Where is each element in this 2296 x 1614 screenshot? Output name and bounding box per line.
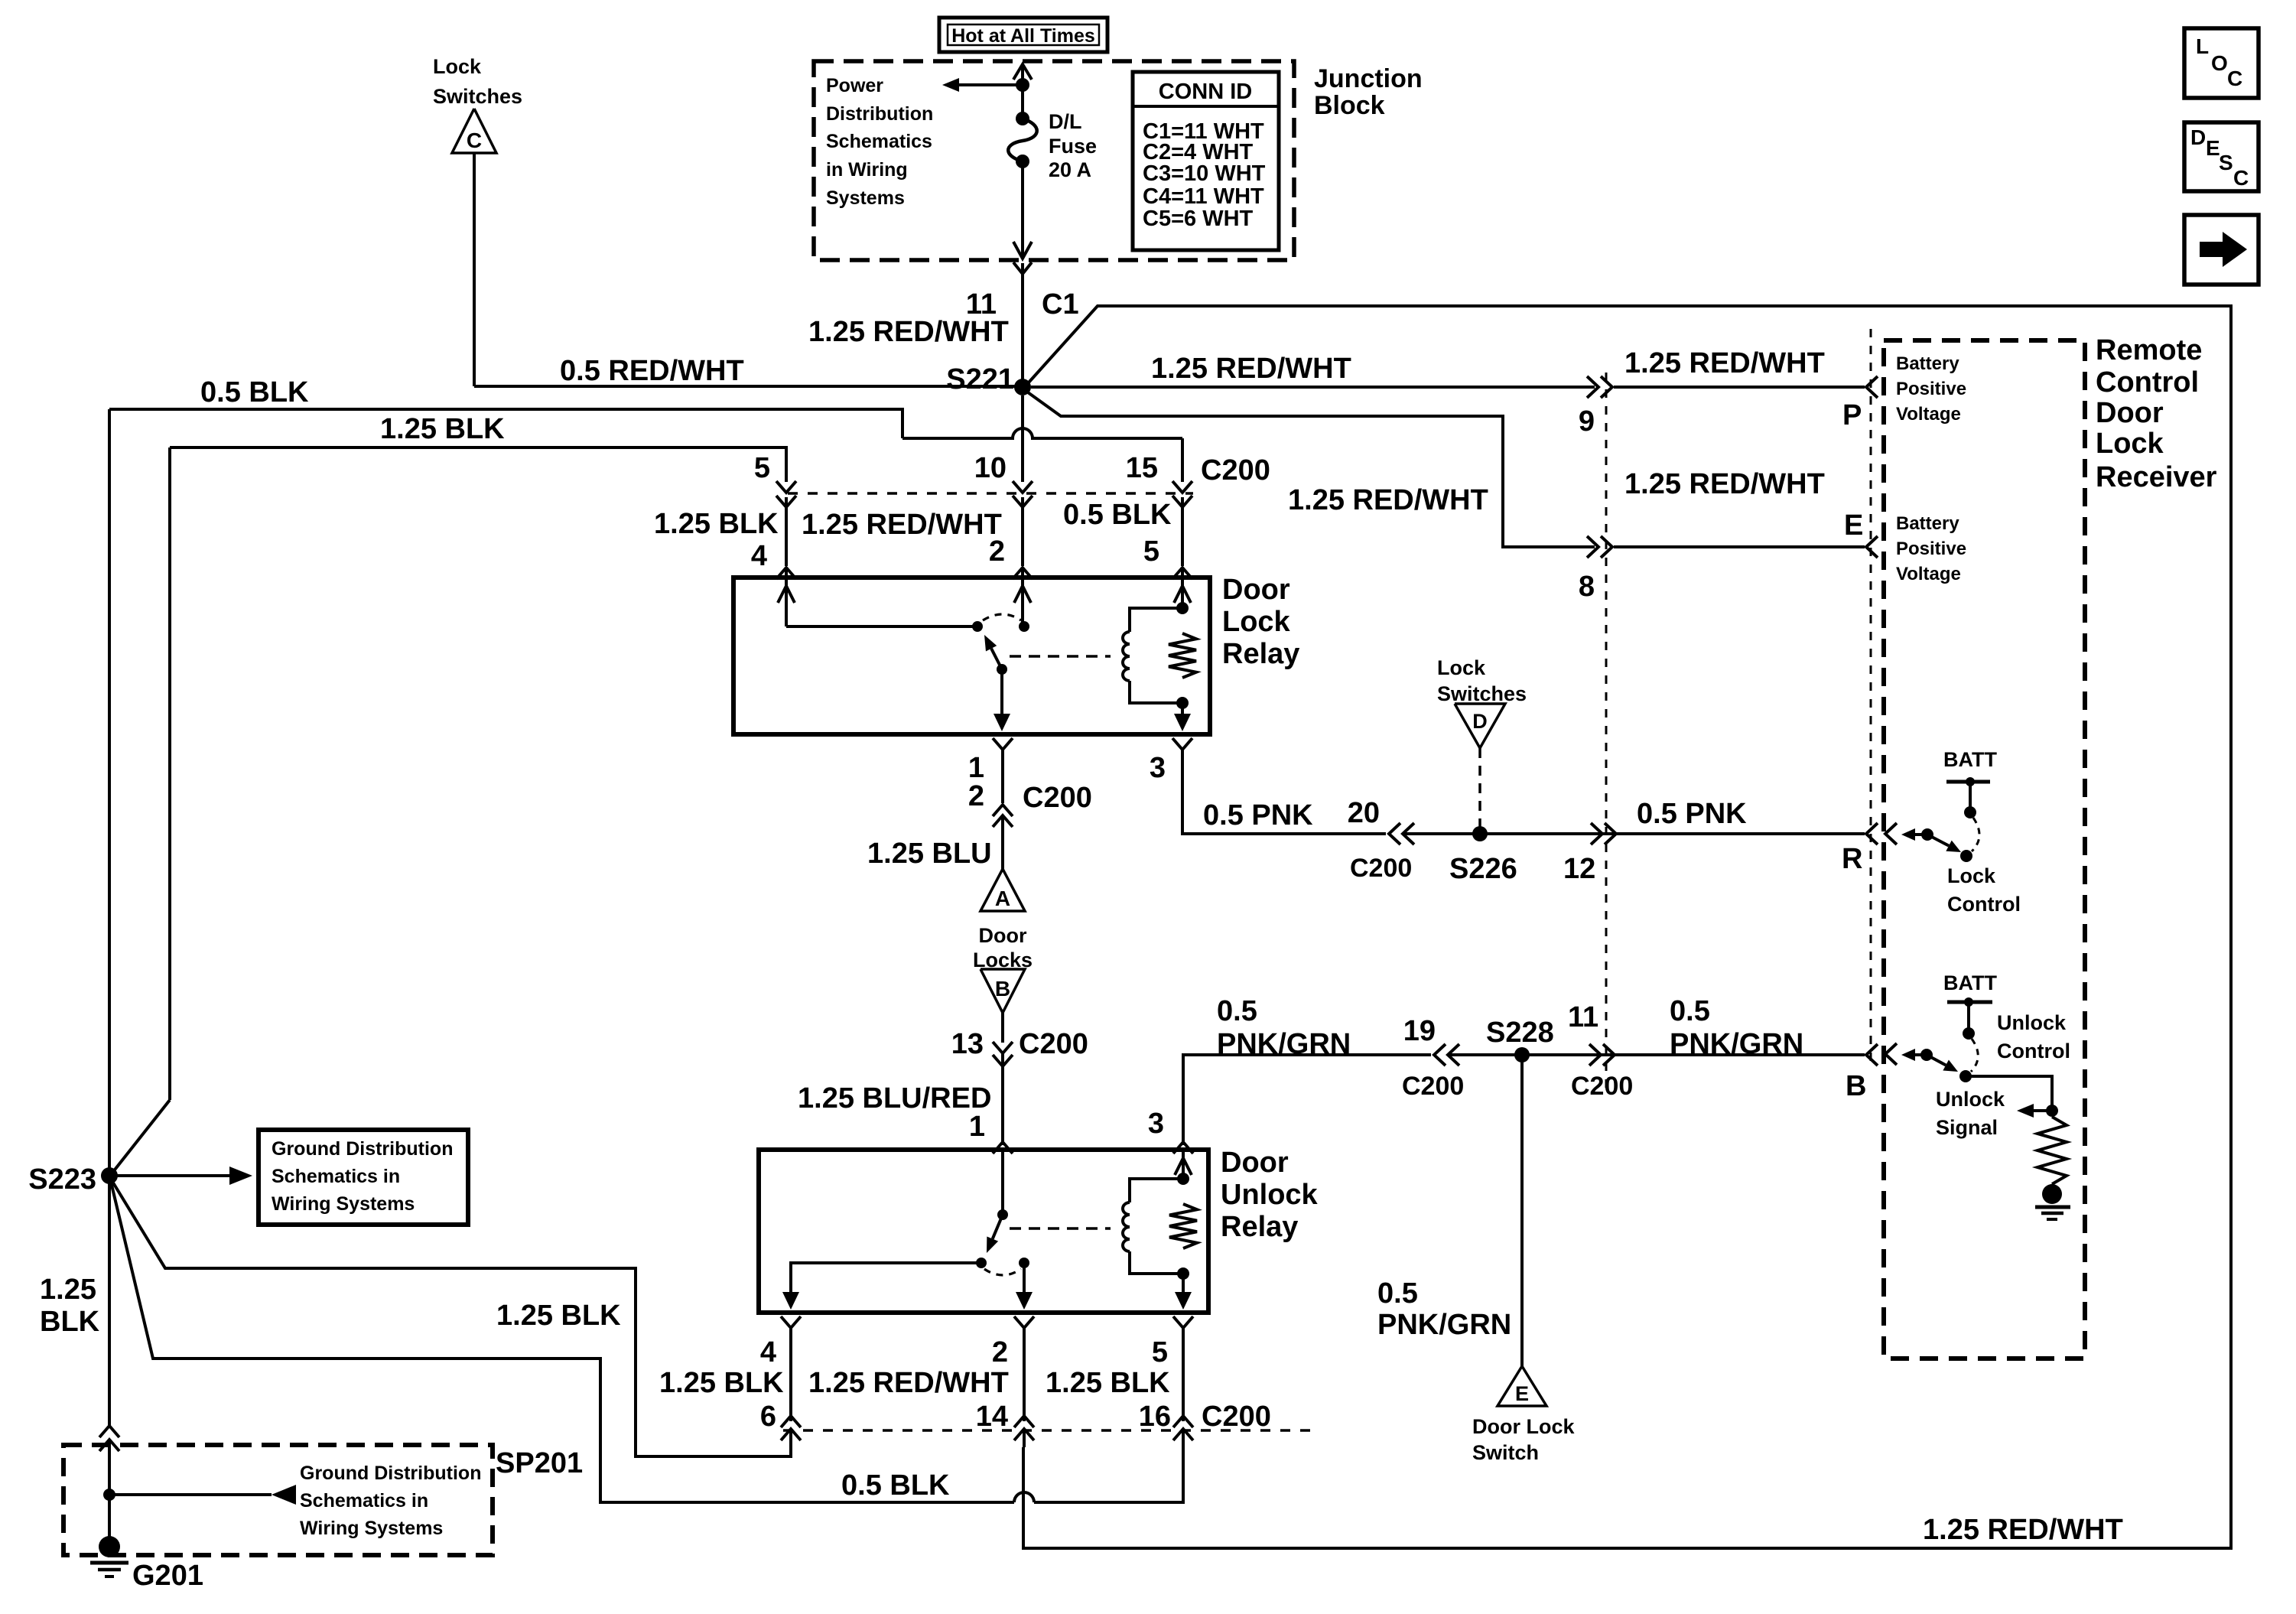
svg-text:1.25 RED/WHT: 1.25 RED/WHT [802, 509, 1002, 541]
svg-text:R: R [1842, 843, 1862, 875]
svg-text:Remote: Remote [2096, 334, 2202, 366]
svg-text:Fuse: Fuse [1049, 135, 1097, 158]
svg-text:B: B [995, 977, 1010, 1001]
svg-text:O: O [2211, 51, 2228, 75]
svg-text:Control: Control [2096, 366, 2199, 399]
svg-text:1.25 RED/WHT: 1.25 RED/WHT [1624, 347, 1825, 379]
svg-text:S228: S228 [1486, 1017, 1554, 1049]
svg-text:0.5 BLK: 0.5 BLK [1063, 499, 1172, 531]
svg-text:Control: Control [1947, 893, 2021, 916]
svg-text:0.5 PNK: 0.5 PNK [1203, 799, 1313, 831]
svg-text:2: 2 [989, 535, 1005, 568]
svg-text:A: A [995, 887, 1010, 910]
svg-text:1.25 RED/WHT: 1.25 RED/WHT [1288, 484, 1488, 516]
svg-text:Door: Door [1221, 1147, 1289, 1179]
svg-text:C200: C200 [1201, 454, 1270, 486]
svg-text:1.25 BLK: 1.25 BLK [496, 1300, 621, 1332]
svg-text:0.5 BLK: 0.5 BLK [841, 1469, 950, 1502]
svg-text:Switches: Switches [433, 85, 522, 108]
svg-text:Positive: Positive [1896, 539, 1966, 559]
svg-text:Schematics: Schematics [826, 131, 932, 152]
svg-text:1.25 BLU/RED: 1.25 BLU/RED [798, 1082, 991, 1115]
svg-text:Lock: Lock [1947, 864, 1996, 887]
svg-text:2: 2 [992, 1336, 1008, 1368]
svg-text:Voltage: Voltage [1896, 564, 1961, 584]
svg-text:1.25 BLK: 1.25 BLK [380, 413, 505, 445]
svg-text:19: 19 [1403, 1015, 1436, 1047]
svg-text:0.5 BLK: 0.5 BLK [200, 376, 309, 408]
svg-text:Positive: Positive [1896, 379, 1966, 399]
svg-text:1.25 RED/WHT: 1.25 RED/WHT [808, 1367, 1009, 1399]
svg-text:C200: C200 [1571, 1072, 1633, 1101]
svg-text:Block: Block [1314, 91, 1385, 120]
svg-text:Signal: Signal [1936, 1116, 1998, 1139]
svg-text:5: 5 [1143, 535, 1159, 568]
svg-text:Systems: Systems [826, 187, 905, 209]
svg-text:Control: Control [1997, 1040, 2070, 1062]
svg-text:C5=6 WHT: C5=6 WHT [1143, 207, 1254, 231]
svg-text:1.25 RED/WHT: 1.25 RED/WHT [1151, 353, 1351, 385]
svg-text:16: 16 [1139, 1401, 1171, 1433]
svg-text:10: 10 [974, 452, 1007, 484]
svg-text:E: E [1844, 509, 1863, 542]
svg-text:15: 15 [1126, 452, 1158, 484]
svg-text:Junction: Junction [1314, 64, 1423, 93]
svg-text:1.25 RED/WHT: 1.25 RED/WHT [1923, 1514, 2123, 1546]
svg-text:Voltage: Voltage [1896, 404, 1961, 425]
svg-text:in Wiring: in Wiring [826, 159, 908, 181]
svg-text:Hot at All Times: Hot at All Times [951, 25, 1095, 47]
svg-text:C3=10 WHT: C3=10 WHT [1143, 161, 1266, 186]
svg-text:G201: G201 [132, 1560, 203, 1592]
svg-text:PNK/GRN: PNK/GRN [1670, 1028, 1803, 1060]
svg-text:Wiring Systems: Wiring Systems [272, 1193, 415, 1215]
svg-text:C200: C200 [1023, 782, 1092, 814]
svg-text:S: S [2219, 151, 2233, 174]
svg-text:Door: Door [2096, 397, 2164, 429]
svg-text:BATT: BATT [1943, 971, 1997, 994]
svg-text:13: 13 [951, 1028, 984, 1060]
svg-text:Unlock: Unlock [1997, 1011, 2067, 1034]
svg-text:0.5: 0.5 [1670, 995, 1710, 1027]
svg-text:4: 4 [760, 1336, 776, 1368]
svg-text:BATT: BATT [1943, 748, 1997, 771]
svg-text:CONN ID: CONN ID [1159, 80, 1252, 104]
svg-text:1: 1 [968, 752, 984, 784]
svg-text:Battery: Battery [1896, 353, 1959, 374]
svg-text:E: E [2206, 136, 2220, 160]
svg-text:S221: S221 [946, 363, 1014, 395]
svg-text:Door Lock: Door Lock [1472, 1415, 1575, 1438]
svg-text:Wiring Systems: Wiring Systems [300, 1518, 443, 1539]
svg-text:20: 20 [1348, 797, 1380, 829]
svg-text:5: 5 [754, 452, 770, 484]
svg-text:Lock: Lock [433, 55, 482, 78]
svg-text:P: P [1842, 399, 1862, 431]
svg-text:Switch: Switch [1472, 1441, 1539, 1464]
svg-text:0.5: 0.5 [1217, 995, 1257, 1027]
svg-text:Ground Distribution: Ground Distribution [300, 1463, 481, 1484]
svg-text:1.25 RED/WHT: 1.25 RED/WHT [808, 316, 1009, 348]
svg-text:Schematics in: Schematics in [272, 1166, 400, 1187]
svg-text:1.25: 1.25 [40, 1274, 96, 1306]
svg-text:Door: Door [979, 924, 1027, 947]
svg-text:Unlock: Unlock [1936, 1088, 2005, 1111]
svg-text:11: 11 [1568, 1001, 1598, 1033]
svg-text:Receiver: Receiver [2096, 461, 2217, 493]
svg-text:C200: C200 [1019, 1028, 1088, 1060]
svg-text:Battery: Battery [1896, 513, 1959, 534]
svg-text:0.5 RED/WHT: 0.5 RED/WHT [560, 355, 744, 387]
svg-text:12: 12 [1563, 853, 1595, 885]
svg-text:4: 4 [751, 540, 767, 572]
svg-text:C: C [2227, 67, 2242, 90]
svg-text:1.25 BLK: 1.25 BLK [1046, 1367, 1170, 1399]
svg-text:BLK: BLK [40, 1306, 100, 1338]
svg-text:Relay: Relay [1221, 1211, 1298, 1243]
svg-text:Switches: Switches [1437, 682, 1527, 705]
svg-text:C1: C1 [1042, 288, 1079, 321]
svg-text:Relay: Relay [1222, 638, 1299, 670]
svg-text:5: 5 [1152, 1336, 1168, 1368]
svg-text:S223: S223 [28, 1163, 96, 1196]
svg-text:1.25 BLU: 1.25 BLU [867, 838, 992, 870]
svg-text:6: 6 [760, 1401, 776, 1433]
svg-text:C4=11 WHT: C4=11 WHT [1143, 184, 1264, 209]
svg-text:C200: C200 [1402, 1072, 1464, 1101]
svg-text:Lock: Lock [1437, 656, 1486, 679]
svg-text:C200: C200 [1202, 1401, 1271, 1433]
svg-text:L: L [2196, 34, 2209, 58]
svg-text:PNK/GRN: PNK/GRN [1217, 1028, 1351, 1060]
svg-text:20 A: 20 A [1049, 158, 1091, 181]
svg-text:14: 14 [976, 1401, 1008, 1433]
svg-text:D: D [2190, 125, 2206, 149]
svg-text:8: 8 [1579, 571, 1595, 603]
svg-text:3: 3 [1150, 752, 1166, 784]
svg-text:Distribution: Distribution [826, 103, 933, 125]
svg-text:Door: Door [1222, 574, 1290, 606]
svg-text:1.25 BLK: 1.25 BLK [654, 508, 779, 540]
svg-text:C: C [467, 129, 482, 152]
svg-text:1.25 RED/WHT: 1.25 RED/WHT [1624, 468, 1825, 500]
svg-text:0.5: 0.5 [1377, 1277, 1418, 1310]
svg-text:Ground Distribution: Ground Distribution [272, 1138, 453, 1160]
svg-text:C: C [2233, 166, 2249, 190]
svg-text:1.25 BLK: 1.25 BLK [659, 1367, 784, 1399]
svg-text:2: 2 [968, 780, 984, 812]
svg-text:Schematics in: Schematics in [300, 1490, 428, 1511]
svg-text:S226: S226 [1449, 853, 1517, 885]
svg-text:Power: Power [826, 75, 883, 96]
svg-text:0.5 PNK: 0.5 PNK [1637, 798, 1747, 830]
svg-text:3: 3 [1148, 1108, 1164, 1140]
svg-text:D/L: D/L [1049, 110, 1082, 133]
svg-text:D: D [1472, 710, 1488, 733]
svg-text:9: 9 [1579, 405, 1595, 438]
svg-text:1: 1 [969, 1111, 985, 1143]
svg-text:Lock: Lock [1222, 606, 1291, 638]
svg-text:Lock: Lock [2096, 428, 2164, 460]
svg-text:C200: C200 [1350, 854, 1412, 883]
svg-text:E: E [1515, 1382, 1529, 1405]
svg-text:Unlock: Unlock [1221, 1179, 1319, 1211]
svg-text:PNK/GRN: PNK/GRN [1377, 1309, 1511, 1341]
svg-text:SP201: SP201 [496, 1447, 583, 1479]
svg-text:B: B [1846, 1070, 1866, 1102]
